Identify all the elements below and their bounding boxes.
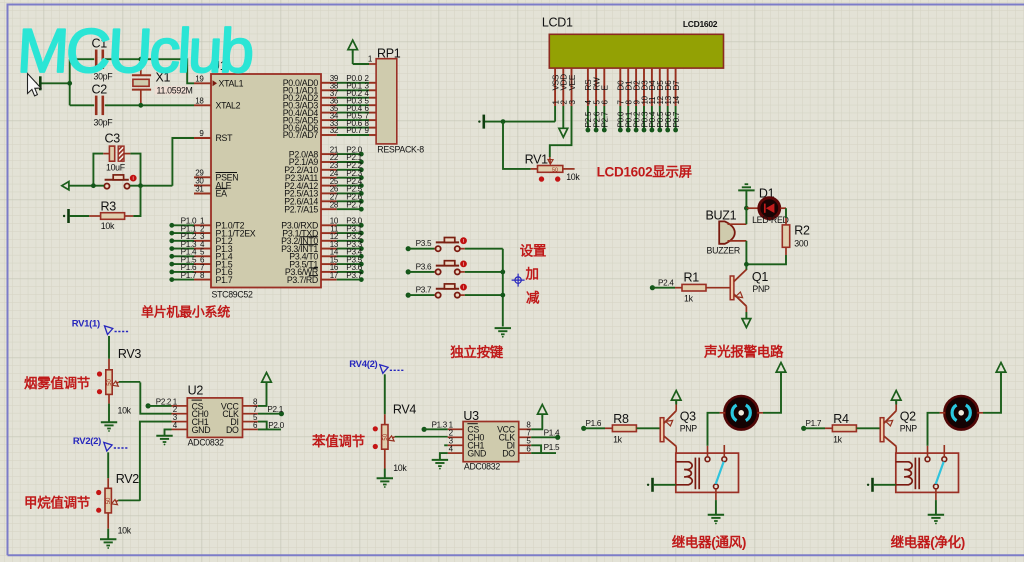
power U2 VCC bbox=[258, 373, 271, 406]
lcd pin 4 RS bbox=[584, 68, 593, 132]
transistor Q1 PNP bbox=[730, 264, 770, 318]
pin 9 RST bbox=[194, 129, 233, 143]
svg-text:声光报警电路: 声光报警电路 bbox=[703, 344, 784, 360]
motor fan tongfeng bbox=[720, 396, 763, 430]
wire button bus bbox=[502, 249, 504, 327]
potentiometer RV4 bbox=[373, 374, 448, 478]
pin 2 P1.1 with net stub bbox=[169, 224, 255, 238]
svg-text:RV2(2): RV2(2) bbox=[73, 436, 101, 447]
push button P3.7 bbox=[406, 284, 503, 298]
adc U2 ADC0832 bbox=[172, 384, 259, 448]
svg-text:减: 减 bbox=[526, 290, 540, 306]
svg-text:GND: GND bbox=[467, 449, 486, 459]
logo MCUclub bbox=[15, 17, 253, 86]
svg-text:18: 18 bbox=[195, 97, 204, 106]
lcd pin 5 RW bbox=[592, 68, 601, 132]
label sheng guang bao jing dian lu bbox=[703, 344, 784, 360]
ground U2 bbox=[156, 429, 172, 445]
node XTAL2 wire bbox=[141, 104, 194, 106]
wire VEE to RV1 wiper bbox=[548, 106, 572, 164]
lcd LCD1 screen bbox=[542, 16, 724, 69]
label jia wan zhi tiao jie bbox=[24, 495, 91, 511]
power terminal Q3 bbox=[671, 391, 681, 404]
pin 35 P0.4 to RP1 bbox=[283, 104, 376, 118]
svg-text:PNP: PNP bbox=[680, 423, 698, 433]
terminal bar relay tongfeng bbox=[647, 478, 676, 492]
terminal RV1(1) bbox=[72, 319, 129, 335]
node XTAL1 wire bbox=[141, 59, 194, 83]
svg-text:14: 14 bbox=[672, 95, 681, 104]
pin 12 P3.2 net stub bbox=[281, 232, 364, 246]
svg-text:Q1: Q1 bbox=[752, 270, 768, 284]
wire R3 to button node bbox=[133, 186, 140, 216]
resistor R8 bbox=[605, 412, 660, 444]
lcd pin 13 D6 bbox=[664, 68, 673, 132]
wire motor to relay contact tongfeng bbox=[708, 413, 720, 446]
junction bus P3.6 bbox=[500, 270, 505, 275]
ground RV2 bbox=[100, 539, 116, 549]
svg-text:P2.1: P2.1 bbox=[267, 405, 283, 414]
svg-text:P2.7: P2.7 bbox=[346, 200, 362, 209]
resistor R2 bbox=[746, 224, 810, 265]
wire C3 left to button bbox=[93, 154, 103, 186]
svg-text:300: 300 bbox=[794, 239, 808, 249]
pin 1 P1.0 with net stub bbox=[169, 217, 244, 231]
wire U3 DI DO P1.5 bbox=[531, 443, 560, 453]
wire gnd rail to RV1 bbox=[503, 122, 538, 169]
respack RP1 bbox=[376, 47, 424, 155]
label jian bbox=[526, 290, 540, 306]
svg-text:P3.6: P3.6 bbox=[416, 262, 432, 271]
wire motor to power jinghua bbox=[983, 372, 1001, 413]
svg-text:R1: R1 bbox=[684, 271, 700, 285]
svg-text:D7: D7 bbox=[672, 80, 681, 91]
terminal bar TB1 bbox=[35, 76, 41, 90]
wire RV3 wiper to U2 CH0 bbox=[140, 382, 171, 413]
pin 25 P2.4 net stub bbox=[284, 177, 363, 191]
wire U2 CLK P2.1 bbox=[258, 405, 284, 416]
terminal bar relay jinghua bbox=[867, 478, 896, 492]
pin 21 P2.0 net stub bbox=[289, 145, 364, 159]
svg-text:P2.0: P2.0 bbox=[268, 421, 284, 430]
svg-text:10uF: 10uF bbox=[106, 163, 126, 173]
svg-text:P1.7: P1.7 bbox=[806, 419, 822, 428]
pin 39 P0.0 to RP1 bbox=[283, 74, 376, 88]
svg-text:继电器(净化): 继电器(净化) bbox=[891, 534, 965, 550]
svg-text:RV1: RV1 bbox=[525, 153, 549, 167]
svg-text:PNP: PNP bbox=[752, 284, 770, 294]
svg-text:1k: 1k bbox=[684, 294, 694, 304]
svg-text:MCUclub: MCUclub bbox=[15, 17, 253, 86]
svg-text:烟雾值调节: 烟雾值调节 bbox=[24, 375, 91, 391]
svg-text:10k: 10k bbox=[118, 526, 132, 536]
label ben zhi tiao jie bbox=[311, 433, 366, 449]
pin 30 ALE bbox=[194, 177, 232, 191]
wire motor to power tongfeng bbox=[763, 372, 781, 413]
svg-text:11.0592M: 11.0592M bbox=[157, 85, 193, 95]
capacitor C1 bbox=[70, 37, 141, 82]
ground relay jinghua bbox=[928, 500, 944, 524]
potentiometer RV3 bbox=[97, 336, 142, 422]
pin 24 P2.3 net stub bbox=[285, 169, 364, 183]
label relay tongfeng bbox=[672, 534, 746, 550]
svg-text:28: 28 bbox=[330, 200, 339, 209]
svg-text:设置: 设置 bbox=[520, 244, 547, 259]
wire C1 left rail bbox=[42, 59, 70, 105]
svg-text:17: 17 bbox=[330, 271, 339, 280]
svg-text:RST: RST bbox=[216, 133, 234, 143]
wire RV2 wiper to U2 CH1 bbox=[140, 422, 172, 501]
pin 18 XTAL2 bbox=[194, 97, 241, 111]
junction button left bbox=[91, 183, 96, 188]
label du li an jian bbox=[450, 344, 504, 360]
pin 13 P3.3 net stub bbox=[281, 240, 364, 254]
pin 34 P0.5 to RP1 bbox=[283, 111, 376, 125]
lcd pin 11 D4 bbox=[648, 68, 657, 132]
svg-text:P1.6: P1.6 bbox=[586, 419, 602, 428]
pin 36 P0.3 to RP1 bbox=[283, 96, 376, 110]
pin 3 P1.2 with net stub bbox=[169, 232, 232, 246]
svg-text:STC89C52: STC89C52 bbox=[212, 290, 254, 300]
svg-text:P1.4: P1.4 bbox=[544, 429, 560, 438]
svg-text:P0.7/AD7: P0.7/AD7 bbox=[283, 130, 319, 140]
mcu U1 STC89C52 bbox=[211, 59, 321, 300]
pin 29 PSEN bbox=[194, 169, 238, 183]
svg-text:10k: 10k bbox=[393, 463, 407, 473]
svg-text:P3.7: P3.7 bbox=[416, 286, 432, 295]
junction D1 top bbox=[744, 206, 749, 211]
svg-text:R2: R2 bbox=[794, 224, 810, 238]
transistor Q3 PNP bbox=[660, 400, 697, 454]
ground RV3 bbox=[101, 422, 117, 432]
power U3 VCC bbox=[531, 405, 547, 430]
pin 37 P0.2 to RP1 bbox=[283, 89, 376, 103]
wire button row bbox=[69, 185, 172, 187]
wire buzzer branch bbox=[745, 208, 747, 264]
pin 6 P1.5 with net stub bbox=[169, 255, 232, 269]
pin 32 P0.7 to RP1 bbox=[283, 126, 376, 140]
svg-text:VEE: VEE bbox=[568, 74, 577, 90]
push button P3.6 bbox=[406, 261, 503, 275]
svg-text:RV3: RV3 bbox=[118, 347, 142, 361]
label dan pian ji zui xiao xi tong bbox=[141, 305, 230, 320]
svg-text:LED-RED: LED-RED bbox=[752, 215, 789, 225]
svg-text:10k: 10k bbox=[118, 406, 132, 416]
pin 31 EA bbox=[194, 185, 227, 199]
svg-text:单片机最小系统: 单片机最小系统 bbox=[141, 305, 230, 320]
svg-text:RV4: RV4 bbox=[393, 403, 417, 417]
lcd pin 12 D5 bbox=[656, 68, 665, 132]
svg-text:DO: DO bbox=[502, 449, 515, 459]
lcd pin 14 D7 bbox=[672, 68, 681, 132]
wire C3 right to button bbox=[130, 154, 140, 186]
svg-text:R3: R3 bbox=[101, 200, 117, 214]
svg-text:P1.5: P1.5 bbox=[544, 443, 560, 452]
junction C1-X1 bbox=[138, 57, 143, 62]
label yan wu zhi tiao jie bbox=[24, 375, 91, 391]
buzzer BUZ1 bbox=[706, 209, 747, 256]
wire P1.7 input bbox=[801, 419, 825, 431]
terminal bar R3 bbox=[63, 209, 69, 223]
svg-text:50: 50 bbox=[552, 167, 558, 173]
wire P2.2 to U2 CS bbox=[146, 397, 172, 408]
pin 4 P1.3 with net stub bbox=[169, 240, 232, 254]
pin 14 P3.4 net stub bbox=[289, 248, 363, 262]
lcd pin 9 D2 bbox=[632, 68, 641, 132]
terminal RV4(2) bbox=[349, 359, 404, 373]
svg-text:P3.7: P3.7 bbox=[346, 271, 362, 280]
svg-text:31: 31 bbox=[195, 185, 204, 194]
svg-text:1k: 1k bbox=[613, 434, 623, 444]
svg-text:30pF: 30pF bbox=[94, 118, 114, 128]
ground RV4 bbox=[377, 478, 393, 488]
power terminal VDD down arrow bbox=[559, 106, 568, 137]
junction Q1 collector bbox=[744, 262, 749, 267]
label jia bbox=[525, 267, 539, 282]
reset button bbox=[104, 175, 136, 189]
svg-text:GND: GND bbox=[192, 425, 211, 435]
terminal bar LCD bbox=[478, 115, 484, 129]
svg-text:P2.4: P2.4 bbox=[658, 279, 674, 288]
svg-text:RESPACK-8: RESPACK-8 bbox=[377, 145, 424, 155]
svg-text:P2.7/A15: P2.7/A15 bbox=[284, 204, 318, 214]
mouse cursor bbox=[28, 74, 41, 96]
junction left rail bbox=[67, 81, 72, 86]
label relay jinghua bbox=[891, 534, 965, 550]
lcd pin 1 VSS bbox=[551, 68, 560, 106]
wire U3 CH1 stub bbox=[444, 444, 448, 446]
svg-text:继电器(通风): 继电器(通风) bbox=[672, 534, 746, 550]
svg-text:DO: DO bbox=[226, 425, 239, 435]
resistor R4 bbox=[825, 412, 880, 444]
terminal arrow down Q1 bbox=[742, 319, 751, 328]
resistor R3 bbox=[70, 200, 134, 232]
adc U3 ADC0832 bbox=[448, 409, 532, 471]
potentiometer RV1 bbox=[525, 153, 581, 183]
svg-text:R8: R8 bbox=[613, 412, 629, 426]
svg-text:甲烷值调节: 甲烷值调节 bbox=[24, 495, 91, 511]
label she zhi bbox=[520, 244, 547, 259]
svg-text:LCD1: LCD1 bbox=[542, 16, 573, 30]
pin 11 P3.1 net stub bbox=[282, 224, 363, 238]
pin 19 XTAL1 bbox=[194, 75, 244, 89]
svg-text:RV1(1): RV1(1) bbox=[72, 319, 100, 330]
svg-text:加: 加 bbox=[525, 267, 539, 282]
motor fan jinghua bbox=[940, 396, 983, 430]
pin 22 P2.1 net stub bbox=[289, 153, 364, 167]
junction button right bbox=[138, 183, 143, 188]
power terminal motor jinghua bbox=[996, 363, 1006, 376]
svg-text:P3.7/RD: P3.7/RD bbox=[287, 275, 318, 285]
svg-text:32: 32 bbox=[330, 126, 339, 135]
lcd pin 7 D0 bbox=[617, 68, 626, 132]
svg-text:LCD1602: LCD1602 bbox=[683, 19, 718, 29]
wire P1.6 input bbox=[581, 419, 605, 431]
pin 26 P2.5 net stub bbox=[284, 185, 363, 199]
pin 15 P3.5 net stub bbox=[289, 255, 363, 269]
capacitor C2 bbox=[70, 83, 141, 128]
pin 38 P0.1 to RP1 bbox=[283, 82, 376, 96]
wire U2 DI DO P2.0 bbox=[258, 421, 285, 430]
pin 10 P3.0 net stub bbox=[281, 217, 363, 231]
wire VSS to ground rail bbox=[485, 106, 555, 122]
capacitor C3 bbox=[103, 132, 130, 173]
pin 17 P3.7 net stub bbox=[287, 271, 364, 285]
svg-text:E: E bbox=[601, 85, 610, 91]
svg-text:ADC0832: ADC0832 bbox=[188, 438, 224, 448]
pin 8 P1.7 with net stub bbox=[169, 271, 232, 285]
svg-text:P1.7: P1.7 bbox=[216, 275, 233, 285]
svg-text:Q3: Q3 bbox=[680, 410, 696, 424]
junction gnd rail bbox=[501, 119, 506, 124]
wire RST bbox=[172, 138, 194, 186]
svg-text:ADC0832: ADC0832 bbox=[464, 461, 500, 471]
svg-text:10k: 10k bbox=[101, 221, 115, 231]
svg-text:RV4(2): RV4(2) bbox=[349, 359, 377, 370]
terminal arrow left bbox=[62, 182, 69, 190]
svg-text:P0.7: P0.7 bbox=[672, 111, 681, 127]
potentiometer RV2 bbox=[96, 452, 140, 539]
svg-text:U2: U2 bbox=[188, 384, 204, 398]
svg-text:苯值调节: 苯值调节 bbox=[311, 433, 366, 449]
transistor Q2 PNP bbox=[880, 400, 917, 454]
svg-text:Q2: Q2 bbox=[900, 410, 916, 424]
junction C2-X1 bbox=[138, 103, 143, 108]
svg-text:R4: R4 bbox=[833, 412, 849, 426]
power terminal Q2 bbox=[891, 391, 901, 404]
ground relay tongfeng bbox=[708, 500, 724, 524]
lcd pin 2 VDD bbox=[560, 68, 569, 106]
svg-text:1k: 1k bbox=[833, 434, 843, 444]
svg-text:P1.7: P1.7 bbox=[181, 271, 197, 280]
power terminal RP1 bbox=[348, 40, 358, 64]
relay jinghua bbox=[896, 445, 959, 500]
resistor R1 with P2.4 bbox=[650, 271, 730, 304]
svg-text:C3: C3 bbox=[105, 132, 121, 146]
push button P3.5 bbox=[406, 237, 503, 251]
terminal RV2(2) bbox=[73, 436, 128, 451]
ground terminal top (flipped) bbox=[738, 184, 754, 208]
wire motor to relay contact jinghua bbox=[928, 413, 940, 446]
svg-text:P0.7: P0.7 bbox=[346, 126, 362, 135]
pin 33 P0.6 to RP1 bbox=[283, 119, 376, 133]
pin 27 P2.6 net stub bbox=[284, 193, 363, 207]
svg-text:P3.5: P3.5 bbox=[416, 239, 432, 248]
svg-text:P2.7: P2.7 bbox=[601, 111, 610, 127]
lcd pin 10 D3 bbox=[640, 68, 649, 132]
svg-text:PNP: PNP bbox=[900, 423, 918, 433]
origin marker bbox=[512, 274, 525, 287]
pin 7 P1.6 with net stub bbox=[169, 263, 232, 277]
crystal X1 bbox=[132, 59, 193, 105]
svg-text:EA: EA bbox=[216, 189, 228, 199]
led D1 LED-RED bbox=[746, 186, 788, 225]
wire U3 CLK P1.4 bbox=[531, 429, 560, 440]
svg-text:LCD1602显示屏: LCD1602显示屏 bbox=[597, 165, 693, 180]
lcd pin 3 VEE bbox=[568, 68, 577, 106]
junction bus P3.7 bbox=[500, 293, 505, 298]
pin 1 RP1 wire bbox=[353, 55, 376, 65]
ground U3 bbox=[432, 453, 448, 469]
lcd pin 6 E bbox=[601, 68, 610, 132]
power terminal motor tongfeng bbox=[776, 363, 786, 376]
wire P1.3 to U3 CS bbox=[422, 421, 448, 432]
svg-text:独立按键: 独立按键 bbox=[450, 344, 504, 360]
svg-text:XTAL2: XTAL2 bbox=[216, 101, 241, 111]
svg-text:BUZ1: BUZ1 bbox=[706, 209, 737, 223]
pin 16 P3.6 net stub bbox=[285, 263, 364, 277]
svg-text:BUZZER: BUZZER bbox=[707, 246, 740, 256]
label LCD1602 xian shi ping bbox=[597, 165, 693, 180]
pin 23 P2.2 net stub bbox=[284, 161, 363, 175]
pin 5 P1.4 with net stub bbox=[169, 248, 232, 262]
relay tongfeng bbox=[676, 445, 739, 500]
pin 28 P2.7 net stub bbox=[284, 200, 363, 214]
svg-text:10k: 10k bbox=[566, 172, 580, 182]
ground buttons bbox=[495, 328, 511, 338]
lcd pin 8 D1 bbox=[625, 68, 634, 132]
svg-text:RV2: RV2 bbox=[116, 472, 140, 486]
wire D1 to R2 bbox=[780, 208, 786, 225]
